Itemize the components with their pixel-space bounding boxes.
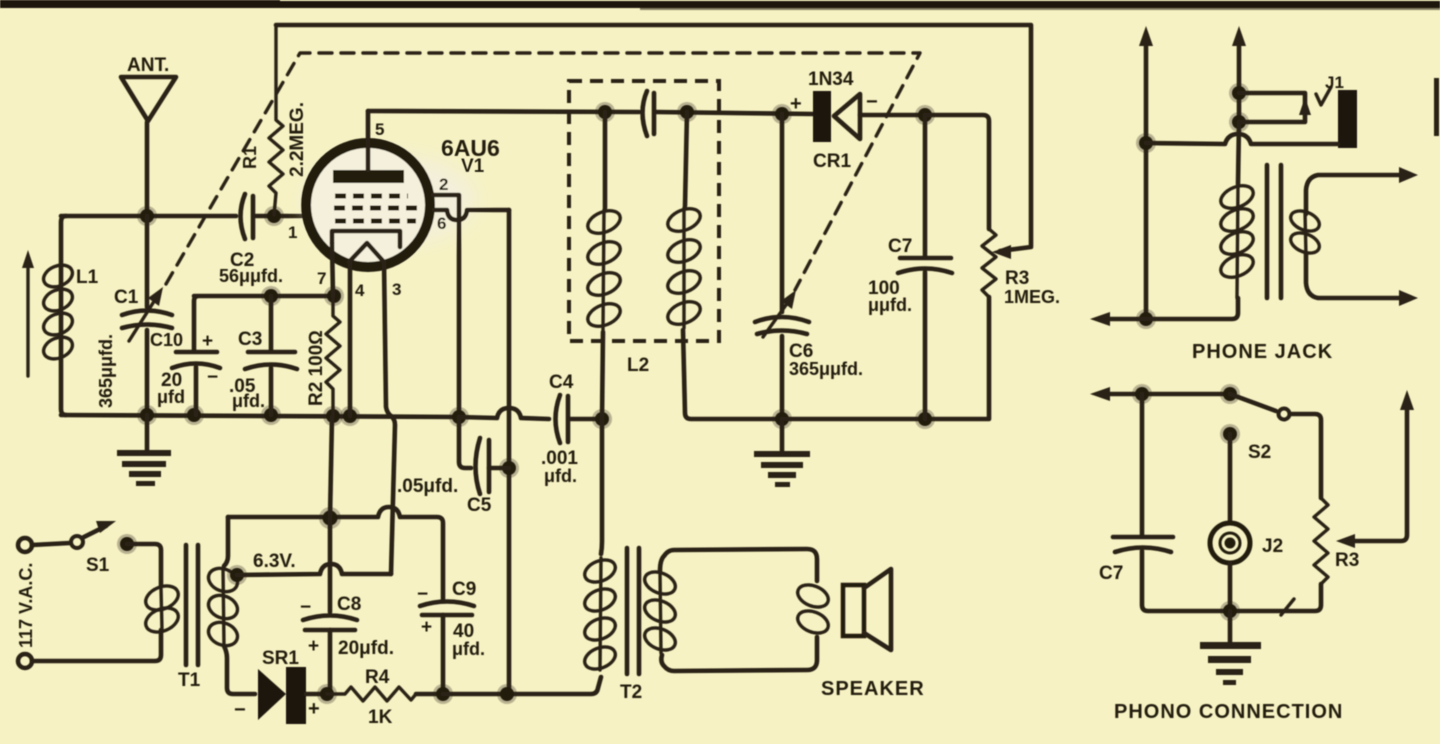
node: C9 bottom / B+ bbox=[433, 684, 453, 704]
transformer T2 primary bbox=[581, 419, 618, 673]
node: jack tip top bbox=[1229, 83, 1249, 103]
svg-text:+: + bbox=[421, 617, 432, 638]
node: jack tip bottom bbox=[1229, 112, 1249, 132]
node: C7 top bbox=[915, 105, 935, 125]
node: R2 bottom bbox=[323, 406, 343, 426]
capacitor C3 bbox=[229, 296, 297, 415]
svg-text:PHONE JACK: PHONE JACK bbox=[1192, 341, 1333, 363]
svg-text:−: − bbox=[417, 584, 428, 605]
capacitor C7 bbox=[868, 115, 952, 419]
node: C10 bottom bbox=[184, 405, 204, 425]
node: L2 left top bbox=[595, 102, 615, 122]
ground symbol (phono) bbox=[1200, 611, 1261, 685]
svg-text:SPEAKER: SPEAKER bbox=[821, 678, 925, 700]
svg-text:7: 7 bbox=[317, 269, 326, 288]
svg-text:μfd.: μfd. bbox=[232, 391, 265, 411]
wire: J2 to ground node bbox=[1228, 563, 1233, 611]
capacitor C1 (variable) bbox=[114, 216, 172, 415]
svg-text:S1: S1 bbox=[86, 555, 110, 576]
transformer T2 core bbox=[620, 548, 642, 703]
svg-text:CR1: CR1 bbox=[813, 151, 851, 172]
svg-text:C4: C4 bbox=[549, 372, 574, 393]
svg-text:C7: C7 bbox=[1099, 563, 1123, 584]
svg-text:L1: L1 bbox=[76, 267, 99, 288]
svg-text:6.3V.: 6.3V. bbox=[253, 551, 296, 572]
wire: top line with left arrow bbox=[1090, 387, 1230, 401]
tube heater bbox=[349, 243, 384, 262]
svg-text:C5: C5 bbox=[467, 495, 492, 516]
svg-text:117 V.A.C.: 117 V.A.C. bbox=[16, 563, 36, 648]
svg-text:−: − bbox=[300, 597, 311, 618]
speaker voice coil bbox=[794, 581, 831, 638]
node: L2 right top bbox=[677, 102, 697, 122]
node: SR1/C8 junction bbox=[317, 684, 337, 704]
wire: top rail from R1 to R3 wiper feed bbox=[276, 25, 1031, 251]
scan top edge artifact bbox=[0, 0, 1440, 10]
node: C6 bottom bbox=[772, 409, 792, 429]
node: C5 right bbox=[499, 458, 519, 478]
wire: plate line from tube top to L2 and 1N34 bbox=[368, 111, 813, 114]
svg-text:4: 4 bbox=[355, 281, 365, 300]
R3 wiper tick bbox=[1281, 599, 1294, 615]
svg-text:μfd.: μfd. bbox=[452, 639, 485, 659]
node: C7 top (phono) bbox=[1132, 384, 1152, 404]
svg-text:μfd.: μfd. bbox=[544, 466, 577, 486]
inductor L2 right winding bbox=[664, 112, 782, 419]
svg-text:C3: C3 bbox=[238, 329, 262, 350]
wire: heater 6.3V line (hops C8 line) bbox=[237, 551, 391, 575]
wire: pin2 to ground bus bbox=[433, 195, 459, 417]
terminal: 117VAC bottom bbox=[18, 654, 32, 668]
tube cathode bbox=[332, 231, 400, 247]
svg-text:+: + bbox=[308, 636, 319, 657]
wire: bottom line with left arrow bbox=[1090, 298, 1238, 326]
wire: ground bus hop over screen line, to C4 bbox=[459, 408, 549, 419]
wire: B+ rail to T2 bbox=[443, 677, 601, 694]
svg-text:1K: 1K bbox=[368, 707, 393, 728]
svg-text:+: + bbox=[308, 698, 320, 720]
wire: pin6 to screen line (with hop) bbox=[434, 210, 509, 220]
capacitor C7 (phono) bbox=[1099, 394, 1230, 611]
svg-text:−: − bbox=[234, 699, 246, 721]
node: pin2/C5 ground junction bbox=[449, 407, 469, 427]
svg-text:J1: J1 bbox=[1325, 73, 1344, 92]
node: S1 right contact bbox=[117, 534, 137, 554]
resistor R3 1MEG bbox=[982, 229, 1060, 307]
svg-text:C8: C8 bbox=[337, 594, 361, 615]
capacitor C2 bbox=[219, 194, 301, 286]
svg-text:SR1: SR1 bbox=[262, 648, 299, 669]
tube 6AU6 V1 bbox=[305, 135, 500, 267]
svg-text:J2: J2 bbox=[1262, 536, 1283, 557]
svg-text:365μμfd.: 365μμfd. bbox=[789, 359, 863, 379]
wire: sleeve line to plug (hops tip line) bbox=[1146, 134, 1338, 144]
wire: pin7 to R2 top bbox=[332, 243, 333, 296]
svg-text:L2: L2 bbox=[627, 355, 649, 376]
svg-text:56μμfd.: 56μμfd. bbox=[219, 266, 283, 286]
node: C3 top bbox=[261, 286, 281, 306]
jack J1 tip contact bbox=[1239, 73, 1344, 122]
svg-text:R2 100Ω: R2 100Ω bbox=[306, 330, 327, 406]
svg-text:μfd: μfd bbox=[157, 387, 185, 407]
node: pin4 heater ground bbox=[340, 406, 360, 426]
svg-text:365μμfd.: 365μμfd. bbox=[96, 334, 116, 408]
ground symbol (left) bbox=[117, 415, 171, 486]
wire: junction up to ground bus bbox=[330, 417, 332, 518]
svg-text:−: − bbox=[207, 367, 218, 388]
wire: junction down to C8 bbox=[328, 518, 333, 612]
resistor R4 1K bbox=[327, 667, 443, 728]
node: C6 top bbox=[772, 104, 792, 124]
wire: pin4 to ground bus bbox=[348, 263, 353, 416]
scan right edge artifact bbox=[1434, 78, 1439, 136]
capacitor C5 bbox=[397, 417, 509, 516]
svg-text:+: + bbox=[202, 331, 213, 352]
transformer T1 core bbox=[178, 545, 201, 691]
node: T1 6.3V tap bbox=[227, 565, 247, 585]
svg-text:C9: C9 bbox=[452, 579, 476, 600]
capacitor C10 (electrolytic) bbox=[150, 330, 220, 415]
transformer T1 secondary bbox=[205, 517, 255, 694]
node: C3 bottom bbox=[261, 405, 281, 425]
node: C1 bottom bbox=[137, 405, 157, 425]
svg-text:C10: C10 bbox=[150, 330, 183, 350]
svg-text:R3: R3 bbox=[1335, 550, 1359, 571]
arrow beside L1 bbox=[22, 250, 34, 376]
svg-text:6: 6 bbox=[437, 214, 446, 233]
svg-text:2.2MEG.: 2.2MEG. bbox=[287, 102, 308, 177]
capacitor C6 (variable) bbox=[755, 114, 863, 419]
node: antenna junction bbox=[137, 206, 157, 226]
svg-text:T2: T2 bbox=[620, 682, 642, 703]
ground symbol under C6 bbox=[754, 419, 810, 487]
speaker bbox=[821, 569, 925, 700]
wire: pin3 heater down (hops ground bus) bbox=[384, 262, 395, 574]
dashed gang line C1-C6 bbox=[166, 53, 920, 290]
svg-text:3: 3 bbox=[392, 280, 401, 299]
svg-text:C7: C7 bbox=[888, 236, 912, 257]
svg-text:R3: R3 bbox=[1005, 268, 1029, 289]
inductor L2 left winding bbox=[584, 112, 623, 419]
capacitor C9 (electrolytic) bbox=[417, 579, 485, 694]
svg-text:S2: S2 bbox=[1248, 442, 1271, 463]
node: C4 / L2 / T2 junction bbox=[592, 409, 612, 429]
svg-text:5: 5 bbox=[375, 120, 384, 139]
wire: RF bus C6 to R3 bottom bbox=[782, 297, 989, 419]
jack J2 bbox=[1210, 523, 1283, 563]
transformer T1 primary bbox=[32, 544, 182, 661]
svg-text:T1: T1 bbox=[178, 670, 201, 691]
node: C8 top / ground junction bbox=[319, 507, 341, 529]
node: jack sleeve junction bbox=[1136, 133, 1156, 153]
wire: right riser with arrow bbox=[1232, 26, 1246, 122]
transformer T2 secondary bbox=[641, 549, 817, 671]
terminal: 117VAC top bbox=[18, 538, 32, 552]
svg-text:−: − bbox=[866, 91, 878, 113]
wire: diode line to R3 top bbox=[925, 115, 989, 229]
svg-text:R4: R4 bbox=[365, 667, 390, 688]
svg-text:μμfd.: μμfd. bbox=[868, 295, 912, 315]
svg-text:1N34: 1N34 bbox=[808, 69, 854, 90]
wire: antenna node to C2 (grid wire) bbox=[61, 214, 236, 219]
node: C7 bottom bbox=[915, 409, 935, 429]
wire: right feed with arrows bbox=[1336, 390, 1414, 548]
node: R1 bottom junction bbox=[264, 206, 284, 226]
capacitor C8 (electrolytic) bbox=[300, 594, 394, 694]
diode CR1 1N34 bbox=[790, 69, 925, 172]
tube plate bbox=[333, 111, 404, 183]
svg-text:ANT.: ANT. bbox=[127, 55, 169, 76]
jack J1 plug bar bbox=[1338, 90, 1357, 148]
inductor L1 bbox=[40, 216, 98, 415]
L2 dashed box bbox=[569, 81, 719, 376]
switch S2 bbox=[1230, 394, 1321, 498]
svg-text:.05μfd.: .05μfd. bbox=[397, 476, 458, 497]
svg-text:20μfd.: 20μfd. bbox=[338, 638, 394, 659]
capacitor inside L2 box bbox=[643, 91, 655, 136]
wire: screen line down to B+ rail bbox=[507, 210, 512, 694]
tube grids (dashed) bbox=[334, 196, 420, 221]
arrowhead into R3 wiper bbox=[992, 245, 1011, 259]
pin labels bbox=[288, 120, 448, 300]
antenna ANT. bbox=[121, 55, 176, 216]
switch S1 bbox=[32, 521, 116, 576]
resistor R1 2.2MEG bbox=[240, 25, 308, 215]
wire: S2 contact to J2 bbox=[1228, 434, 1233, 523]
svg-text:1: 1 bbox=[288, 223, 297, 242]
wire: left riser with arrow bbox=[1139, 26, 1153, 319]
capacitor C4 bbox=[541, 372, 602, 486]
svg-text:2: 2 bbox=[439, 175, 448, 194]
node: S2 lower contact bbox=[1220, 424, 1240, 444]
wire: ground/neg line T1 top to C9 (hops heater pin3 line) bbox=[228, 507, 443, 599]
svg-text:V1: V1 bbox=[461, 156, 485, 177]
phone transformer primary bbox=[1217, 122, 1256, 298]
node: R2 top / pin7 bbox=[324, 286, 344, 306]
svg-text:+: + bbox=[790, 93, 802, 115]
phone transformer core bbox=[1267, 165, 1281, 298]
node: bottom junction bbox=[1136, 309, 1156, 329]
node: screen feed on B+ rail bbox=[497, 684, 517, 704]
svg-text:C1: C1 bbox=[114, 287, 139, 308]
svg-text:R1: R1 bbox=[240, 146, 260, 169]
svg-text:PHONO CONNECTION: PHONO CONNECTION bbox=[1114, 701, 1343, 723]
cathode rail (C10/C3 top) bbox=[194, 296, 334, 350]
resistor R2 100ohm bbox=[306, 296, 340, 416]
ground bus (left) bbox=[61, 415, 459, 417]
rectifier SR1 bbox=[234, 648, 327, 724]
node: phono ground junction bbox=[1220, 601, 1240, 621]
svg-text:1MEG.: 1MEG. bbox=[1004, 287, 1060, 307]
resistor R3 (phono) bbox=[1230, 498, 1359, 611]
node: switch pivot bbox=[1220, 384, 1240, 404]
phone transformer secondary bbox=[1288, 167, 1418, 306]
